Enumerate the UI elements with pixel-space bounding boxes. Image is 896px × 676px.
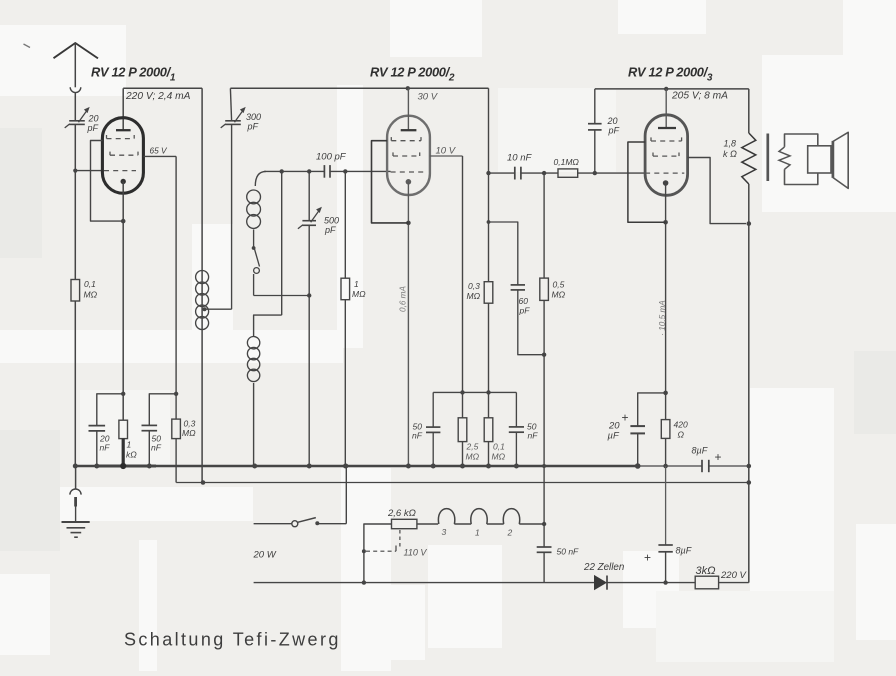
svg-text:50 nF: 50 nF [557, 547, 580, 557]
svg-text:20 W: 20 W [253, 550, 277, 561]
svg-text:20: 20 [607, 116, 618, 126]
svg-text:nF: nF [151, 443, 162, 453]
svg-text:0,1MΩ: 0,1MΩ [554, 157, 580, 167]
svg-text:pF: pF [519, 306, 531, 316]
svg-text:pF: pF [608, 126, 620, 136]
svg-text:65 V: 65 V [150, 146, 169, 156]
svg-text:220 V: 220 V [720, 570, 747, 581]
svg-text:MΩ: MΩ [352, 289, 366, 299]
svg-text:110 V: 110 V [404, 548, 428, 558]
svg-text:Ω: Ω [678, 430, 685, 440]
svg-text:22 Zellen: 22 Zellen [583, 562, 624, 573]
svg-text:nF: nF [100, 443, 111, 453]
svg-text:0,5: 0,5 [553, 280, 565, 290]
svg-text:MΩ: MΩ [182, 428, 196, 438]
svg-text:300: 300 [246, 112, 261, 122]
svg-text:k Ω: k Ω [723, 149, 737, 159]
svg-text:2: 2 [507, 528, 513, 538]
svg-text:220 V; 2,4 mA: 220 V; 2,4 mA [125, 91, 191, 102]
svg-text:kΩ: kΩ [126, 450, 137, 460]
svg-text:0,3: 0,3 [468, 281, 480, 291]
svg-text:100 pF: 100 pF [316, 152, 347, 163]
svg-text:MΩ: MΩ [466, 452, 480, 462]
svg-text:0,3: 0,3 [184, 419, 196, 429]
svg-text:2,5: 2,5 [466, 442, 479, 452]
svg-text:3: 3 [442, 527, 447, 537]
svg-text:1: 1 [354, 279, 359, 289]
svg-text:420: 420 [674, 420, 688, 430]
svg-text:205 V; 8 mA: 205 V; 8 mA [671, 91, 728, 102]
svg-text:0,1: 0,1 [493, 442, 505, 452]
svg-text:pF: pF [324, 225, 336, 235]
svg-text:30 V: 30 V [418, 92, 439, 103]
svg-text:500: 500 [324, 216, 339, 226]
svg-text:Schaltung Tefi-Zwerg: Schaltung Tefi-Zwerg [124, 630, 341, 650]
svg-text:60: 60 [519, 296, 529, 306]
svg-text:µF: µF [608, 431, 620, 442]
svg-text:0,1: 0,1 [84, 279, 96, 289]
svg-text:pF: pF [87, 123, 99, 133]
svg-text:1,8: 1,8 [724, 139, 737, 149]
svg-text:0,6 mA: 0,6 mA [399, 285, 408, 311]
svg-text:+: + [644, 551, 651, 565]
svg-text:1: 1 [475, 528, 480, 538]
svg-text:MΩ: MΩ [84, 290, 98, 300]
svg-text:· 10,5 mA: · 10,5 mA [658, 300, 667, 336]
svg-text:MΩ: MΩ [467, 291, 481, 301]
svg-text:+: + [715, 450, 722, 464]
svg-text:10 nF: 10 nF [507, 153, 532, 164]
svg-text:+: + [622, 411, 629, 425]
svg-text:8µF: 8µF [676, 546, 692, 556]
svg-text:MΩ: MΩ [552, 290, 566, 300]
svg-text:8µF: 8µF [692, 446, 708, 456]
svg-text:nF: nF [528, 431, 539, 441]
svg-text:10 V: 10 V [436, 146, 457, 157]
svg-text:3kΩ: 3kΩ [696, 565, 716, 577]
svg-text:nF: nF [412, 431, 423, 441]
svg-text:2,6 kΩ: 2,6 kΩ [387, 508, 416, 519]
svg-text:1: 1 [127, 440, 132, 450]
svg-text:pF: pF [247, 122, 259, 132]
svg-text:MΩ: MΩ [492, 452, 506, 462]
svg-text:20: 20 [88, 114, 99, 124]
